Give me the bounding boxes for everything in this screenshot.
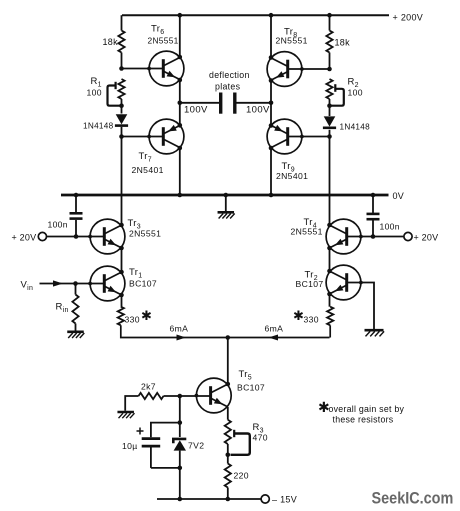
ground below Tr2 base bbox=[365, 330, 385, 336]
label Tr6 2N5551 bbox=[148, 36, 179, 46]
wire Vin input bbox=[40, 280, 105, 286]
label 0V bbox=[393, 191, 405, 201]
label Tr5 bbox=[239, 369, 252, 382]
svg-text:✱: ✱ bbox=[293, 308, 304, 323]
svg-text:470: 470 bbox=[253, 433, 268, 443]
resistor 330 right bbox=[327, 307, 333, 326]
wire left plate lead bbox=[180, 102, 219, 104]
node 100n-right junction on 0V rail bbox=[371, 193, 376, 198]
wire 18k to Tr8 base node bbox=[329, 53, 331, 70]
wire 2k7 left to ground bbox=[125, 396, 138, 411]
wire 10u top lead bbox=[151, 423, 180, 438]
svg-text:220: 220 bbox=[234, 471, 249, 481]
wire Tr9 base lead bbox=[288, 136, 330, 138]
label R3 470 bbox=[253, 433, 268, 443]
node 100V left bbox=[178, 101, 209, 116]
label 100n right bbox=[380, 222, 400, 232]
svg-text:plates: plates bbox=[215, 82, 241, 92]
svg-text:2N5551: 2N5551 bbox=[276, 36, 308, 46]
svg-text:100: 100 bbox=[348, 88, 363, 98]
node tail junction 6mA bbox=[226, 335, 231, 340]
svg-text:2N5551: 2N5551 bbox=[148, 36, 179, 46]
resistor 2k7 bbox=[139, 393, 180, 399]
label R1 100 bbox=[87, 88, 102, 98]
svg-text:18k: 18k bbox=[103, 37, 119, 47]
node +200V label bbox=[393, 13, 424, 23]
label 330 left bbox=[125, 308, 153, 325]
label R2 100 bbox=[348, 88, 363, 98]
svg-text:6mA: 6mA bbox=[265, 324, 284, 334]
node terminal +20V left bbox=[12, 232, 47, 242]
resistor 18k left bbox=[103, 31, 125, 53]
potentiometer R3 470 bbox=[225, 420, 250, 455]
node R3 wiper junction bbox=[226, 453, 231, 458]
label 6mA right bbox=[265, 324, 284, 334]
svg-text:✱: ✱ bbox=[141, 308, 152, 323]
wire Tr7 base lead bbox=[122, 136, 164, 138]
label deflection plates bbox=[209, 70, 250, 92]
wire R3 to 220 bbox=[227, 444, 229, 464]
node 100n-left junction on 0V rail bbox=[74, 193, 79, 198]
node Tr6 base junction bbox=[119, 66, 124, 71]
wire diode to Tr7 base node bbox=[121, 127, 123, 137]
label note asterisk bbox=[318, 399, 330, 415]
wire right bias column top bbox=[329, 15, 331, 30]
svg-text:100n: 100n bbox=[48, 220, 68, 230]
wire left bias column top bbox=[121, 15, 123, 30]
wire Tr6 emitter to 100V node bbox=[178, 78, 183, 103]
label Rin bbox=[56, 302, 69, 315]
label Tr9 bbox=[282, 161, 295, 174]
wire 18k to Tr6 base node bbox=[121, 53, 123, 69]
svg-text:2N5401: 2N5401 bbox=[132, 165, 164, 175]
label Tr2 bbox=[305, 270, 318, 283]
svg-text:Tr7: Tr7 bbox=[139, 151, 152, 164]
node Tr9 collector on 0V rail bbox=[269, 193, 274, 198]
wire 220 to -15V rail bbox=[227, 488, 229, 500]
label Tr7 2N5401 bbox=[132, 165, 164, 175]
transistor Tr2 BC107 bbox=[326, 265, 363, 300]
resistor 330 left bbox=[118, 307, 124, 326]
svg-text:18k: 18k bbox=[335, 38, 351, 48]
svg-text:+ 200V: + 200V bbox=[393, 13, 424, 23]
resistor 220 bbox=[225, 464, 231, 488]
svg-text:2N5551: 2N5551 bbox=[129, 229, 161, 239]
label note line1 bbox=[329, 404, 405, 414]
node 2k7/zener junction bbox=[178, 394, 183, 399]
label 330 right bbox=[293, 308, 319, 325]
node 18k right top junction bbox=[327, 13, 332, 18]
wire Tr9 collector to 0V rail bbox=[269, 146, 274, 195]
label 220 bbox=[234, 471, 249, 481]
wire +20V to Tr3 base bbox=[47, 236, 105, 238]
wire 10u bottom lead bbox=[151, 467, 180, 469]
label note line2 bbox=[333, 415, 394, 425]
label 6mA left bbox=[170, 324, 189, 334]
label 1N4148 left bbox=[83, 122, 114, 131]
capacitor deflection plate right bbox=[233, 93, 236, 114]
node Tr6 collector junction on rail bbox=[178, 13, 183, 18]
label Tr4 2N5551 bbox=[291, 227, 323, 237]
label Tr8 bbox=[284, 27, 297, 40]
resistor Rin bbox=[72, 284, 78, 324]
wire 330 right to 6mA line bbox=[329, 325, 331, 337]
capacitor 10u electrolytic bbox=[137, 428, 161, 468]
wire 100V node to Tr9 emitter bbox=[270, 103, 272, 126]
label 7V2 bbox=[188, 441, 204, 451]
ground below 2k7 bbox=[117, 412, 134, 418]
wire Tr7 emitter dot bbox=[178, 123, 183, 128]
capacitor 100n left bbox=[70, 195, 83, 237]
node Tr9 base junction bbox=[327, 134, 332, 139]
node Vin label bbox=[21, 280, 34, 293]
transistor Tr5 BC107 bbox=[195, 378, 232, 413]
label Tr3 2N5551 bbox=[129, 229, 161, 239]
svg-text:+ 20V: + 20V bbox=[414, 233, 439, 243]
svg-text:0V: 0V bbox=[393, 191, 405, 201]
transistor Tr6 2N5551 bbox=[147, 51, 184, 86]
label Tr9 2N5401 bbox=[276, 171, 308, 181]
svg-text:330: 330 bbox=[125, 315, 140, 325]
transistor Tr1 BC107 bbox=[88, 266, 125, 301]
svg-text:1N4148: 1N4148 bbox=[340, 123, 371, 132]
transistor Tr8 2N5551 bbox=[267, 52, 304, 87]
wire 0V rail bbox=[61, 194, 389, 197]
svg-text:deflection: deflection bbox=[209, 70, 250, 80]
label Tr8 2N5551 bbox=[276, 36, 308, 46]
node Tr8 collector junction on rail bbox=[269, 13, 274, 18]
wire 6mA line right half bbox=[228, 337, 330, 339]
node 100V right bbox=[246, 101, 273, 116]
svg-text:BC107: BC107 bbox=[129, 279, 157, 289]
wire Tr5 emitter to R3 bbox=[227, 407, 229, 420]
svg-text:BC107: BC107 bbox=[237, 383, 265, 393]
label 2k7 bbox=[141, 382, 156, 392]
label 100n left bbox=[48, 220, 68, 230]
wire 330 left to 6mA line bbox=[121, 325, 228, 337]
label Tr1 BC107 bbox=[129, 279, 157, 289]
wire Tr4 collector dot bbox=[327, 223, 332, 228]
svg-text:10µ: 10µ bbox=[122, 441, 138, 451]
label Tr6 bbox=[151, 24, 164, 37]
label Tr2 BC107 bbox=[296, 279, 324, 289]
transistor Tr7 2N5401 bbox=[147, 119, 184, 154]
wire Tr7 collector to 0V rail bbox=[178, 146, 183, 195]
svg-text:overall gain set by: overall gain set by bbox=[329, 404, 405, 414]
wire 6mA arrow left bbox=[177, 335, 187, 341]
svg-text:SeekIC.com: SeekIC.com bbox=[372, 490, 454, 508]
wire 6mA arrow right bbox=[269, 335, 279, 341]
svg-text:100V: 100V bbox=[184, 105, 208, 116]
transistor Tr4 2N5551 bbox=[326, 219, 363, 254]
transistor Tr3 2N5551 bbox=[88, 219, 125, 254]
svg-text:2N5401: 2N5401 bbox=[276, 171, 308, 181]
svg-text:2N5551: 2N5551 bbox=[291, 227, 323, 237]
node Tr7 collector on 0V rail bbox=[178, 193, 183, 198]
resistor 18k right bbox=[326, 31, 350, 53]
ground below Rin bbox=[67, 324, 84, 339]
label Tr7 bbox=[139, 151, 152, 164]
wire zener column upper bbox=[179, 396, 181, 437]
wire right bias column to Tr4 collector (crosses 0V rail) bbox=[329, 137, 331, 226]
label R3 bbox=[253, 422, 264, 435]
wire Tr1 emitter to 330 left bbox=[119, 293, 124, 307]
wire right plate lead bbox=[237, 102, 272, 104]
wire -15V bottom rail bbox=[157, 498, 261, 500]
label Tr1 bbox=[129, 267, 142, 280]
label Tr5 BC107 bbox=[237, 383, 265, 393]
label Tr4 bbox=[304, 217, 317, 230]
wire Tr9 emitter dot bbox=[269, 123, 274, 128]
label Tr3 bbox=[128, 218, 141, 231]
node R1 wiper junction bbox=[119, 103, 124, 108]
potentiometer R1 100 bbox=[108, 79, 125, 106]
wire R1 to wiper node bbox=[121, 99, 123, 114]
node R2 wiper junction bbox=[327, 103, 332, 108]
wire Tr8 emitter to 100V node bbox=[269, 78, 274, 103]
label 10u bbox=[122, 441, 138, 451]
wire Tr3 emitter to Tr1 collector bbox=[119, 246, 124, 275]
node Tr7 base junction bbox=[119, 134, 124, 139]
svg-text:100: 100 bbox=[87, 88, 102, 98]
wire left bias column to Tr3 collector (crosses 0V rail) bbox=[121, 137, 123, 225]
svg-text:6mA: 6mA bbox=[170, 324, 189, 334]
svg-text:100V: 100V bbox=[246, 105, 270, 116]
capacitor deflection plate left bbox=[219, 93, 222, 114]
node terminal -15V bbox=[261, 495, 297, 505]
node 220 junction on -15V rail bbox=[226, 497, 231, 502]
node 100n/+20V junction bbox=[74, 234, 79, 239]
svg-text:330: 330 bbox=[304, 315, 319, 325]
svg-text:100n: 100n bbox=[380, 222, 400, 232]
potentiometer R2 100 bbox=[326, 79, 343, 106]
svg-text:Vin: Vin bbox=[21, 280, 34, 293]
ground center below 0V rail bbox=[218, 195, 235, 219]
svg-text:1N4148: 1N4148 bbox=[83, 122, 114, 131]
svg-text:BC107: BC107 bbox=[296, 279, 324, 289]
node 10u bottom junction bbox=[178, 466, 183, 471]
svg-text:+ 20V: + 20V bbox=[12, 233, 37, 243]
wire +200V top rail bbox=[122, 14, 389, 16]
node ground junction on 0V rail bbox=[224, 193, 229, 198]
wire Tr2 emitter to 330 right bbox=[327, 292, 332, 307]
label R2 bbox=[348, 77, 359, 90]
wire Tr4 emitter to Tr2 collector bbox=[327, 246, 332, 274]
label 1N4148 right bbox=[340, 123, 371, 132]
transistor Tr9 2N5401 bbox=[267, 119, 304, 154]
node 100n/+20V right junction bbox=[371, 234, 376, 239]
node 10u top junction bbox=[178, 420, 183, 425]
node zener junction on -15V rail bbox=[178, 497, 183, 502]
wire 100V node to Tr7 emitter bbox=[179, 103, 181, 126]
svg-text:2k7: 2k7 bbox=[141, 382, 156, 392]
svg-text:Tr6: Tr6 bbox=[151, 24, 164, 37]
label R1 bbox=[91, 76, 102, 89]
svg-text:Tr5: Tr5 bbox=[239, 369, 252, 382]
node terminal +20V right bbox=[404, 232, 438, 242]
diode 1N4148 left bbox=[115, 114, 128, 125]
node Tr8 base junction bbox=[327, 67, 332, 72]
wire R2 to wiper node bbox=[329, 99, 331, 116]
capacitor 100n right bbox=[367, 195, 380, 237]
wire Tr5 base lead bbox=[180, 395, 210, 397]
wire Tr2 base to ground bbox=[347, 283, 375, 330]
wire diode to Tr9 base node bbox=[329, 130, 331, 137]
svg-text:Rin: Rin bbox=[56, 302, 69, 315]
wire Tr4 base to +20V bbox=[347, 236, 404, 238]
diode 1N4148 right bbox=[323, 116, 336, 127]
zener diode 7V2 bbox=[173, 439, 186, 499]
wire Tr8 collector to rail bbox=[269, 15, 274, 60]
svg-text:– 15V: – 15V bbox=[272, 495, 297, 505]
wire tail junction to Tr5 collector bbox=[226, 338, 231, 387]
wire Tr3 collector dot bbox=[119, 223, 124, 228]
wire Tr6 collector to rail bbox=[178, 15, 183, 59]
svg-text:7V2: 7V2 bbox=[188, 441, 204, 451]
node Vin/Rin junction bbox=[73, 281, 78, 286]
svg-text:these resistors: these resistors bbox=[333, 415, 394, 425]
wire Tr6 base lead bbox=[122, 68, 164, 70]
wire Tr8 base lead bbox=[288, 68, 330, 70]
label SeekIC.com watermark bbox=[372, 490, 454, 508]
